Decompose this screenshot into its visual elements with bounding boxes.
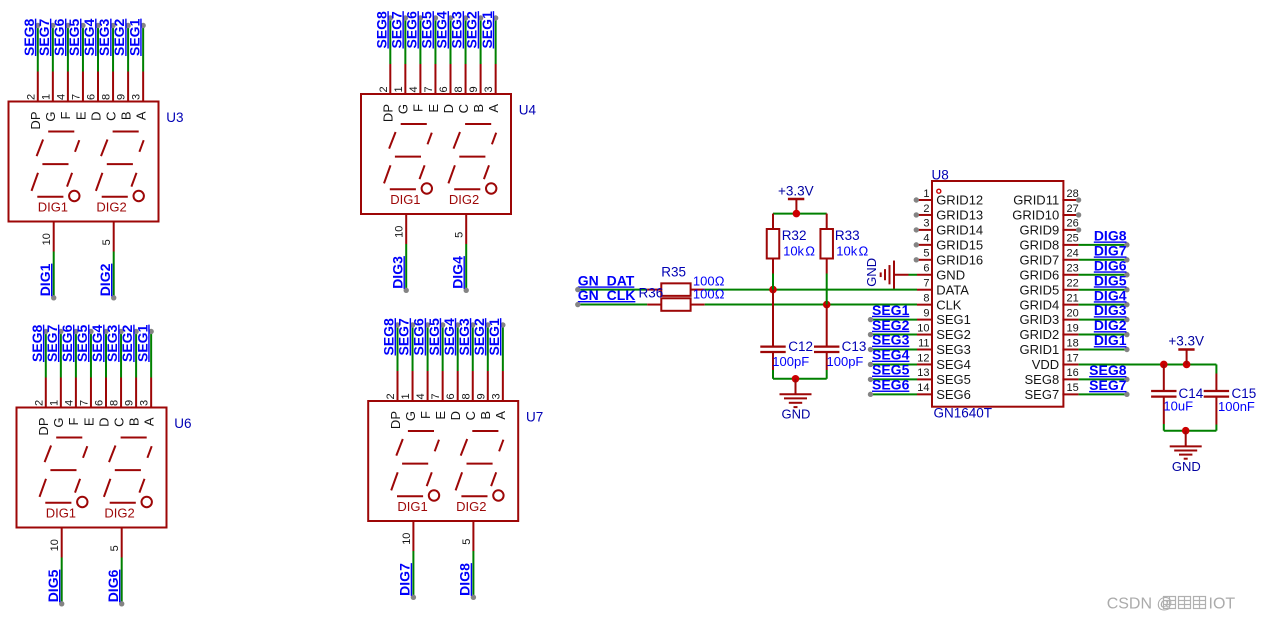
open end dot pin 27 — [1076, 212, 1081, 217]
svg-text:GND: GND — [864, 258, 879, 287]
svg-text:2: 2 — [378, 86, 390, 92]
svg-text:F: F — [411, 104, 426, 112]
junction on CLK at R33/C13 — [823, 301, 831, 309]
svg-text:SEG6: SEG6 — [59, 324, 75, 362]
U7 pin 1 (G) — [412, 371, 414, 402]
wire SEG3 to U4 — [465, 18, 467, 64]
svg-text:GRID1: GRID1 — [1019, 342, 1059, 357]
svg-text:10: 10 — [41, 233, 53, 245]
svg-text:DIG6: DIG6 — [105, 569, 121, 602]
wire SEG4 to U3 — [97, 26, 99, 72]
U6 digit 2 segment D — [110, 502, 136, 504]
capacitor C13 — [826, 305, 828, 347]
wire +3.3V rail to R32/R33 — [773, 213, 827, 215]
svg-text:SEG5: SEG5 — [872, 362, 910, 378]
svg-text:SEG3: SEG3 — [456, 318, 472, 356]
svg-text:SEG8: SEG8 — [381, 318, 397, 356]
open end dot SEG3 — [463, 15, 468, 20]
U8 pin 9 (SEG1) — [917, 319, 933, 321]
U4 pin 2 (DP) — [389, 64, 391, 95]
U6 digit 1 segment A — [56, 437, 82, 439]
svg-text:GRID5: GRID5 — [1019, 282, 1059, 297]
U6 digit 1 segment G — [50, 469, 76, 471]
U7 digit 2 decimal point — [493, 490, 503, 500]
resistor R35 — [647, 289, 661, 291]
U4 pin 5 (DIG) — [465, 213, 467, 244]
wire SEG2 to U6 — [135, 332, 137, 378]
open end dot pin 3 — [914, 227, 919, 232]
svg-text:GND: GND — [1172, 459, 1201, 474]
svg-text:18: 18 — [1067, 337, 1079, 349]
svg-text:DIG5: DIG5 — [45, 569, 61, 602]
open end dot SEG3 — [868, 347, 873, 352]
U6 digit 2 segment E — [104, 479, 111, 497]
svg-text:SEG2: SEG2 — [471, 318, 487, 356]
svg-text:100pF: 100pF — [827, 354, 864, 369]
svg-text:A: A — [141, 417, 156, 426]
U7 digit 2 segment G — [467, 463, 493, 465]
svg-text:7: 7 — [70, 94, 82, 100]
svg-text:DIG5: DIG5 — [1094, 272, 1127, 288]
open end dot SEG8 — [43, 329, 48, 334]
svg-text:25: 25 — [1067, 233, 1079, 245]
svg-text:3: 3 — [490, 393, 502, 399]
svg-text:SEG3: SEG3 — [104, 324, 120, 362]
wire SEG6 to U7 — [427, 325, 429, 371]
svg-text:SEG1: SEG1 — [134, 324, 150, 362]
svg-text:SEG3: SEG3 — [96, 18, 112, 56]
U7 pin 4 (F) — [427, 371, 429, 402]
U6 pin 5 (DIG) — [121, 527, 123, 558]
svg-text:5: 5 — [454, 232, 466, 238]
U4 pin 4 (F) — [419, 64, 421, 95]
junction gnd rail — [792, 375, 800, 383]
wire SEG1 to U7 — [502, 325, 504, 371]
svg-text:GND: GND — [936, 267, 965, 282]
open end dot SEG5 — [88, 329, 93, 334]
svg-text:1: 1 — [393, 86, 405, 92]
svg-text:DIG4: DIG4 — [1094, 287, 1127, 303]
wire SEG4 to U8 pin 12 — [871, 363, 918, 365]
wire SEG2 to U4 — [480, 18, 482, 64]
U4 digit 1 decimal point — [422, 183, 432, 193]
svg-text:DP: DP — [36, 418, 51, 436]
svg-text:A: A — [493, 411, 508, 420]
wire DIG7 from U8 pin 24 — [1079, 259, 1127, 261]
U7 digit 1 segment G — [402, 463, 428, 465]
wire VDD corner down — [1215, 364, 1217, 373]
U7 digit 2 segment A — [472, 430, 498, 432]
U4 digit 2 segment A — [465, 123, 491, 125]
wire DIG8 from U8 pin 25 — [1079, 244, 1127, 246]
open end dot SEG3 — [110, 23, 115, 28]
U4 digit 1 segment E — [384, 165, 391, 183]
svg-text:B: B — [478, 411, 493, 420]
IC U8 GN1640T body — [932, 181, 1063, 407]
junction gnd rail (right) — [1182, 427, 1190, 435]
U3 pin 1 (G) — [52, 72, 54, 103]
open end dot pin 5 — [914, 257, 919, 262]
svg-text:DIG1: DIG1 — [38, 199, 68, 214]
svg-text:8: 8 — [101, 94, 113, 100]
svg-text:GN_CLK: GN_CLK — [578, 287, 636, 303]
U8 pin 5 (GRID16) — [917, 259, 933, 261]
U3 digit 1 segment B — [75, 140, 79, 152]
svg-text:DATA: DATA — [936, 282, 969, 297]
svg-text:10k Ω: 10k Ω — [836, 244, 868, 259]
U4 pin 6 (D) — [450, 64, 452, 95]
wire DIG2 from U3 — [113, 252, 115, 298]
svg-text:R32: R32 — [782, 228, 807, 243]
open end dot SEG7 — [50, 23, 55, 28]
svg-text:6: 6 — [923, 263, 929, 275]
wire SEG7 to U4 — [404, 18, 406, 64]
svg-text:GRID14: GRID14 — [936, 223, 983, 238]
open end dot SEG2 — [478, 15, 483, 20]
open end dot DIG2 — [111, 295, 116, 300]
open end dot DIG5 — [1124, 287, 1129, 292]
svg-text:SEG1: SEG1 — [486, 318, 502, 356]
U7 digit 1 segment D — [397, 495, 423, 497]
svg-text:SEG4: SEG4 — [81, 18, 97, 56]
wire U8 pin 6 to GND — [909, 274, 918, 276]
U8 pin 25 (GRID8) — [1062, 244, 1078, 246]
svg-text:DIG1: DIG1 — [46, 505, 76, 520]
U8 pin 21 (GRID4) — [1062, 304, 1078, 306]
svg-text:DP: DP — [388, 411, 403, 429]
wire SEG3 to U7 — [472, 325, 474, 371]
svg-text:2: 2 — [25, 94, 37, 100]
U7 pin 3 (A) — [502, 371, 504, 402]
wire DIG4 from U8 pin 21 — [1079, 304, 1127, 306]
U6 digit 2 decimal point — [142, 497, 152, 507]
wire SEG2 to U3 — [127, 26, 129, 72]
svg-text:SEG7: SEG7 — [44, 324, 60, 362]
svg-text:SEG7: SEG7 — [396, 318, 412, 356]
wire SEG2 to U8 pin 10 — [871, 334, 918, 336]
svg-text:U7: U7 — [526, 409, 543, 424]
wire SEG8 to U4 — [389, 18, 391, 64]
capacitor C14 — [1163, 364, 1165, 390]
svg-text:2: 2 — [385, 393, 397, 399]
U6 pin 7 (E) — [90, 378, 92, 409]
svg-text:4: 4 — [415, 393, 427, 399]
U4 digit 1 segment B — [428, 133, 432, 145]
U4 digit 2 segment E — [448, 165, 455, 183]
svg-text:5: 5 — [101, 239, 113, 245]
svg-text:SEG6: SEG6 — [936, 387, 971, 402]
open end dot pin 4 — [914, 242, 919, 247]
U3 pin 4 (F) — [67, 72, 69, 103]
open end dot SEG6 — [418, 15, 423, 20]
U4 pin 3 (A) — [495, 64, 497, 95]
svg-text:8: 8 — [453, 86, 465, 92]
svg-text:9: 9 — [116, 94, 128, 100]
wire SEG8 from U8 pin 16 — [1079, 378, 1127, 380]
open end dot SEG6 — [425, 322, 430, 327]
svg-text:GRID16: GRID16 — [936, 252, 983, 267]
U6 pin 8 (C) — [120, 378, 122, 409]
junction +3.3V rail — [793, 210, 801, 218]
U8 pin 26 (GRID9) — [1062, 229, 1078, 231]
U8 pin 16 (SEG8) — [1062, 378, 1078, 380]
svg-text:CLK: CLK — [936, 297, 962, 312]
svg-text:GN_DAT: GN_DAT — [578, 272, 635, 288]
svg-text:G: G — [51, 418, 66, 428]
U4 digit 1 segment F — [389, 132, 396, 149]
7-seg display U4 — [361, 94, 511, 214]
open end dot DIG8 — [1124, 242, 1129, 247]
wire SEG7 to U7 — [412, 325, 414, 371]
svg-text:4: 4 — [408, 86, 420, 92]
svg-text:D: D — [448, 411, 463, 420]
resistor R32 — [772, 214, 774, 229]
U8 pin 4 (GRID15) — [917, 244, 933, 246]
U8 pin 15 (SEG7) — [1062, 393, 1078, 395]
U3 pin 2 (DP) — [37, 72, 39, 103]
U8 pin 8 (CLK) — [917, 304, 933, 306]
svg-text:3: 3 — [139, 400, 151, 406]
junction VDD at +3.3V — [1183, 361, 1191, 369]
U8 pin 6 (GND) — [917, 274, 933, 276]
svg-text:SEG7: SEG7 — [1089, 377, 1127, 393]
svg-text:SEG8: SEG8 — [21, 18, 37, 56]
svg-text:DIG2: DIG2 — [456, 499, 486, 514]
U4 digit 2 segment B — [492, 133, 496, 145]
wire SEG8 to U7 — [397, 325, 399, 371]
svg-text:1: 1 — [40, 94, 52, 100]
U4 pin 7 (E) — [434, 64, 436, 95]
svg-text:SEG2: SEG2 — [936, 327, 971, 342]
wire SEG3 to U6 — [120, 332, 122, 378]
wire SEG8 to U6 — [45, 332, 47, 378]
open end dot SEG4 — [103, 329, 108, 334]
svg-text:DP: DP — [381, 104, 396, 122]
U7 digit 1 segment A — [408, 430, 434, 432]
svg-text:SEG7: SEG7 — [388, 11, 404, 49]
svg-text:100pF: 100pF — [772, 354, 809, 369]
svg-text:5: 5 — [923, 248, 929, 260]
svg-text:11: 11 — [918, 337, 929, 349]
svg-text:DIG2: DIG2 — [1094, 317, 1127, 333]
svg-text:22: 22 — [1067, 278, 1079, 290]
gnd rail under C14/C15 — [1164, 430, 1217, 432]
svg-text:D: D — [96, 418, 111, 427]
open end dot DIG1 — [51, 295, 56, 300]
wire DIG8 from U7 — [472, 551, 474, 597]
open end dot GN_CLK — [575, 302, 580, 307]
U8 pin 3 (GRID14) — [917, 229, 933, 231]
U7 digit 1 segment F — [396, 439, 403, 456]
svg-text:9: 9 — [124, 400, 136, 406]
U7 digit 2 segment D — [461, 495, 487, 497]
svg-text:5: 5 — [109, 545, 121, 551]
wire DIG4 from U4 — [465, 244, 467, 290]
svg-text:GRID2: GRID2 — [1019, 327, 1059, 342]
svg-text:GRID9: GRID9 — [1019, 223, 1059, 238]
svg-text:SEG8: SEG8 — [1025, 372, 1060, 387]
svg-text:R36: R36 — [639, 286, 664, 301]
U3 digit 1 segment F — [37, 140, 44, 157]
svg-text:9: 9 — [468, 86, 480, 92]
svg-text:SEG4: SEG4 — [936, 357, 971, 372]
U8 pin 10 (SEG2) — [917, 334, 933, 336]
U8 pin 19 (GRID2) — [1062, 334, 1078, 336]
U6 pin 1 (G) — [60, 378, 62, 409]
U3 pin 9 (B) — [127, 72, 129, 103]
U6 digit 2 segment A — [121, 437, 147, 439]
svg-text:12: 12 — [917, 352, 929, 364]
svg-text:4: 4 — [923, 233, 929, 245]
power port +3.3V (right) — [1178, 348, 1194, 351]
7-seg display U6 — [17, 408, 167, 528]
svg-text:2: 2 — [33, 400, 45, 406]
open end dot SEG7 — [58, 329, 63, 334]
U6 digit 1 segment F — [45, 446, 52, 463]
U7 pin 10 (DIG) — [412, 520, 414, 551]
svg-text:SEG1: SEG1 — [126, 18, 142, 56]
U6 digit 2 segment B — [147, 446, 151, 458]
U3 digit 1 segment E — [32, 173, 39, 191]
wire SEG6 to U6 — [75, 332, 77, 378]
wire GN_CLK to U8 pin 8 (CLK) — [705, 304, 917, 306]
svg-text:SEG6: SEG6 — [51, 18, 67, 56]
U8 pin 24 (GRID7) — [1062, 259, 1078, 261]
U6 digit 1 segment B — [83, 446, 87, 458]
open end dot DIG4 — [1124, 302, 1129, 307]
svg-text:GRID7: GRID7 — [1019, 252, 1059, 267]
svg-text:17: 17 — [1067, 352, 1079, 364]
U6 pin 9 (B) — [135, 378, 137, 409]
svg-text:DIG1: DIG1 — [1094, 332, 1127, 348]
svg-text:DIG2: DIG2 — [104, 505, 134, 520]
svg-text:DIG1: DIG1 — [37, 263, 53, 296]
open end dot SEG1 — [500, 322, 505, 327]
wire SEG6 to U8 pin 14 — [871, 393, 918, 395]
U4 digit 2 decimal point — [486, 183, 496, 193]
svg-text:SEG1: SEG1 — [479, 11, 495, 49]
resistor R33 — [826, 214, 828, 229]
open end dot SEG8 — [395, 322, 400, 327]
svg-text:3: 3 — [483, 86, 495, 92]
svg-text:SEG5: SEG5 — [419, 11, 435, 49]
svg-text:100nF: 100nF — [1218, 399, 1255, 414]
open end dot SEG1 — [868, 317, 873, 322]
U8 pin 2 (GRID13) — [917, 214, 933, 216]
svg-text:SEG4: SEG4 — [434, 11, 450, 49]
wire C15 to gnd rail (right) — [1215, 425, 1217, 431]
svg-text:DIG3: DIG3 — [390, 256, 406, 289]
svg-text:GRID4: GRID4 — [1019, 297, 1059, 312]
svg-text:23: 23 — [1067, 263, 1079, 275]
U6 pin 10 (DIG) — [61, 527, 63, 558]
svg-text:E: E — [426, 104, 441, 113]
svg-text:DIG7: DIG7 — [1094, 242, 1127, 258]
svg-text:SEG6: SEG6 — [404, 11, 420, 49]
svg-text:CSDN @: CSDN @ — [1107, 596, 1173, 613]
capacitor C15 — [1215, 374, 1217, 391]
svg-text:SEG7: SEG7 — [1025, 387, 1060, 402]
U3 pin 6 (D) — [97, 72, 99, 103]
wire SEG6 to U4 — [419, 18, 421, 64]
svg-text:DIG8: DIG8 — [457, 563, 473, 596]
svg-text:24: 24 — [1067, 248, 1079, 260]
U7 digit 2 segment B — [499, 440, 503, 452]
U8 pin 1 marker — [937, 189, 941, 193]
U7 pin 6 (D) — [457, 371, 459, 402]
wire SEG1 to U8 pin 9 — [871, 319, 918, 321]
svg-text:C: C — [456, 104, 471, 113]
U8 pin 13 (SEG5) — [917, 378, 933, 380]
U6 digit 1 segment C — [75, 479, 80, 493]
svg-text:10uF: 10uF — [1163, 399, 1193, 414]
svg-text:9: 9 — [475, 393, 487, 399]
svg-text:SEG3: SEG3 — [872, 332, 910, 348]
U3 digit 2 segment F — [101, 140, 108, 157]
open end dot DIG3 — [1124, 317, 1129, 322]
U8 pin 11 (SEG3) — [917, 349, 933, 351]
U3 digit 1 segment D — [37, 196, 63, 198]
svg-text:SEG8: SEG8 — [29, 324, 45, 362]
wire C14 to gnd rail (right) — [1163, 424, 1165, 431]
wire DIG1 from U8 pin 18 — [1079, 349, 1127, 351]
U8 pin 7 (DATA) — [917, 289, 933, 291]
ground symbol at U8 pin 6 — [894, 274, 909, 276]
wire SEG5 to U6 — [90, 332, 92, 378]
open end dot SEG7 — [403, 15, 408, 20]
U6 digit 1 segment D — [45, 502, 71, 504]
power port +3.3V (mid) — [788, 198, 804, 201]
svg-text:DIG1: DIG1 — [390, 192, 420, 207]
svg-text:U6: U6 — [174, 416, 191, 431]
U4 digit 2 segment F — [454, 132, 461, 149]
open end dot SEG2 — [133, 329, 138, 334]
svg-text:1: 1 — [48, 400, 60, 406]
open end dot DIG3 — [404, 288, 409, 293]
open end dot SEG5 — [80, 23, 85, 28]
svg-text:SEG5: SEG5 — [426, 318, 442, 356]
open end dot DIG8 — [471, 595, 476, 600]
U3 digit 2 segment D — [102, 196, 128, 198]
U7 digit 1 decimal point — [429, 490, 439, 500]
svg-text:SEG4: SEG4 — [441, 318, 457, 356]
svg-text:DIG6: DIG6 — [1094, 257, 1127, 273]
U4 pin 8 (C) — [465, 64, 467, 95]
wire SEG2 to U7 — [487, 325, 489, 371]
svg-text:14: 14 — [917, 382, 929, 394]
svg-text:F: F — [418, 411, 433, 419]
U8 pin 1 (GRID12) — [917, 199, 933, 201]
svg-text:1: 1 — [400, 393, 412, 399]
svg-text:16: 16 — [1067, 367, 1079, 379]
svg-text:SEG4: SEG4 — [872, 347, 910, 363]
svg-text:GND: GND — [782, 406, 811, 421]
svg-text:10k Ω: 10k Ω — [783, 244, 815, 259]
U8 pin 28 (GRID11) — [1062, 199, 1078, 201]
U6 pin 3 (A) — [150, 378, 152, 409]
wire DIG2 from U8 pin 19 — [1079, 334, 1127, 336]
svg-text:DIG2: DIG2 — [96, 199, 126, 214]
U3 digit 1 segment A — [48, 131, 74, 133]
svg-text:20: 20 — [1067, 307, 1079, 319]
junction on DAT at R32/C12 — [769, 286, 777, 294]
wire SEG7 to U3 — [52, 26, 54, 72]
U3 digit 2 segment C — [131, 173, 136, 187]
svg-text:100Ω: 100Ω — [693, 286, 725, 301]
svg-text:DIG1: DIG1 — [397, 499, 427, 514]
svg-text:E: E — [73, 111, 88, 120]
svg-text:D: D — [88, 112, 103, 121]
